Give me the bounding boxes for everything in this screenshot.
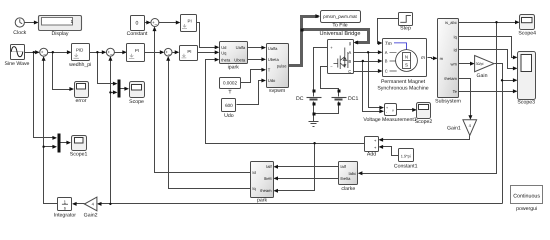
svg-text:N: N: [405, 55, 408, 60]
svg-text:v: v: [392, 108, 394, 112]
svg-text:error: error: [76, 98, 87, 104]
svg-text:DC1: DC1: [348, 96, 358, 102]
svg-text:B: B: [348, 59, 351, 64]
svg-text:A: A: [348, 50, 351, 55]
svg-text:Ualfa: Ualfa: [268, 46, 278, 51]
svg-text:park: park: [257, 197, 267, 203]
svg-text:thetam: thetam: [444, 76, 457, 81]
svg-text:ipark: ipark: [228, 65, 240, 71]
svg-text:m: m: [440, 56, 444, 61]
svg-text:Permanent Magnet: Permanent Magnet: [381, 79, 426, 85]
svg-text:Ibelt: Ibelt: [264, 176, 273, 181]
svg-text:Gain1: Gain1: [447, 125, 461, 131]
svg-text:Ubeta: Ubeta: [268, 57, 280, 62]
svg-text:Uq: Uq: [221, 50, 227, 55]
svg-text:PI: PI: [135, 48, 139, 53]
svg-text:Tm: Tm: [385, 41, 392, 47]
svg-text:theam: theam: [260, 188, 272, 193]
svg-text:Universal Bridge: Universal Bridge: [319, 30, 360, 37]
svg-text:Scope3: Scope3: [517, 99, 535, 105]
svg-text:Constant1: Constant1: [394, 163, 418, 169]
svg-text:Integrator: Integrator: [54, 212, 76, 218]
svg-text:S: S: [405, 63, 408, 68]
svg-text:−: −: [43, 52, 46, 58]
svg-text:1.5*pi: 1.5*pi: [401, 153, 411, 158]
svg-text:−: −: [110, 52, 113, 58]
svg-text:PID: PID: [76, 47, 83, 52]
svg-text:Add: Add: [367, 152, 376, 158]
svg-text:PI: PI: [187, 49, 191, 54]
svg-text:Gain2: Gain2: [84, 212, 98, 218]
svg-text:Voltage Measurement1: Voltage Measurement1: [363, 117, 416, 123]
svg-text:C: C: [348, 69, 351, 74]
svg-text:Udo: Udo: [224, 113, 234, 119]
svg-text:Step: Step: [400, 26, 411, 32]
svg-text:30/pi: 30/pi: [476, 62, 484, 66]
svg-text:Subsystem: Subsystem: [435, 98, 461, 104]
svg-text:Scope: Scope: [129, 99, 144, 105]
svg-text:Scope2: Scope2: [415, 119, 433, 125]
svg-text:Udo: Udo: [268, 78, 276, 83]
svg-text:B: B: [385, 59, 388, 64]
svg-text:Ualfa: Ualfa: [236, 45, 246, 50]
svg-text:Synchronous Machine: Synchronous Machine: [377, 85, 428, 91]
svg-text:−: −: [154, 22, 157, 28]
svg-text:wedhh_pi: wedhh_pi: [69, 62, 91, 68]
svg-text:0.0002: 0.0002: [223, 81, 237, 86]
svg-text:Ibelta: Ibelta: [340, 176, 351, 181]
svg-text:Ialf: Ialf: [340, 164, 346, 169]
svg-text:DC: DC: [296, 96, 304, 102]
svg-text:m: m: [421, 56, 425, 61]
svg-text:Display: Display: [51, 31, 68, 37]
svg-text:Te: Te: [453, 89, 458, 94]
svg-text:0: 0: [136, 21, 139, 27]
svg-text:Scope1: Scope1: [70, 152, 88, 158]
svg-text:Constant: Constant: [127, 31, 148, 37]
svg-text:powergui: powergui: [516, 206, 537, 212]
svg-text:600: 600: [225, 103, 233, 108]
svg-text:is_abc: is_abc: [445, 20, 457, 25]
svg-text:C: C: [385, 69, 388, 74]
svg-text:pmsm_pwm.mat: pmsm_pwm.mat: [323, 14, 357, 19]
svg-text:Sine Wave: Sine Wave: [5, 61, 30, 67]
svg-text:clarke: clarke: [341, 186, 355, 192]
svg-text:theta: theta: [221, 57, 231, 62]
svg-text:Clock: Clock: [13, 30, 26, 36]
svg-text:svpwm: svpwm: [269, 88, 285, 94]
svg-text:Scope4: Scope4: [518, 30, 536, 36]
svg-text:Ialf: Ialf: [266, 164, 272, 169]
svg-text:A: A: [385, 50, 388, 55]
svg-text:1: 1: [71, 19, 74, 24]
svg-text:wm: wm: [451, 61, 458, 66]
svg-text:Ubeta: Ubeta: [234, 57, 246, 62]
svg-text:PI: PI: [188, 18, 192, 23]
svg-text:Iabc: Iabc: [348, 171, 356, 176]
svg-text:pulse: pulse: [277, 63, 288, 68]
svg-text:−: −: [168, 52, 171, 58]
svg-text:Continuous: Continuous: [513, 194, 540, 200]
svg-text:Ud: Ud: [221, 45, 227, 50]
svg-text:Gain: Gain: [477, 73, 488, 79]
svg-text:To File: To File: [332, 23, 347, 29]
